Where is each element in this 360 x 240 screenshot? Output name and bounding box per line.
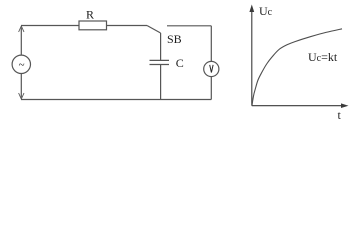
wire top horizontal left of R bbox=[21, 25, 79, 27]
svg-text:R: R bbox=[86, 8, 94, 22]
voltmeter PV1 circle bbox=[204, 61, 219, 76]
svg-text:C: C bbox=[176, 56, 184, 70]
voltmeter V symbol bbox=[210, 65, 213, 73]
arrowhead down at bottom node bbox=[19, 93, 24, 99]
wire R to switch bbox=[107, 25, 148, 27]
svg-text:t: t bbox=[338, 108, 342, 122]
t axis (horizontal) bbox=[252, 105, 342, 107]
Uc axis (vertical) bbox=[251, 10, 253, 106]
charging curve bbox=[252, 29, 342, 106]
svg-text:~: ~ bbox=[19, 59, 25, 71]
svg-text:Uc: Uc bbox=[259, 4, 273, 18]
wire top-left vertical with up arrowhead bbox=[20, 28, 22, 56]
svg-text:Uc=kt: Uc=kt bbox=[308, 50, 338, 64]
graph axes bbox=[252, 10, 342, 106]
wire capacitor lower lead bbox=[160, 65, 162, 100]
wire bottom horizontal bbox=[21, 99, 211, 101]
capacitor C1 plates bbox=[150, 60, 170, 64]
wire source lower lead with down arrowhead bbox=[20, 74, 22, 98]
wire voltmeter lower lead bbox=[210, 77, 212, 100]
svg-text:SB: SB bbox=[167, 32, 182, 46]
wire diagonal bend to capacitor branch bbox=[147, 26, 161, 34]
resistor R1 body bbox=[79, 21, 107, 30]
switch SB right contact wire bbox=[167, 25, 211, 27]
wire voltmeter branch vertical upper bbox=[210, 26, 212, 62]
Uc axis arrowhead bbox=[249, 5, 254, 13]
AC source G1 circle bbox=[12, 55, 30, 73]
arrowhead up at node A bbox=[19, 26, 24, 32]
wire capacitor upper lead bbox=[160, 33, 162, 60]
t axis arrowhead bbox=[341, 103, 349, 108]
